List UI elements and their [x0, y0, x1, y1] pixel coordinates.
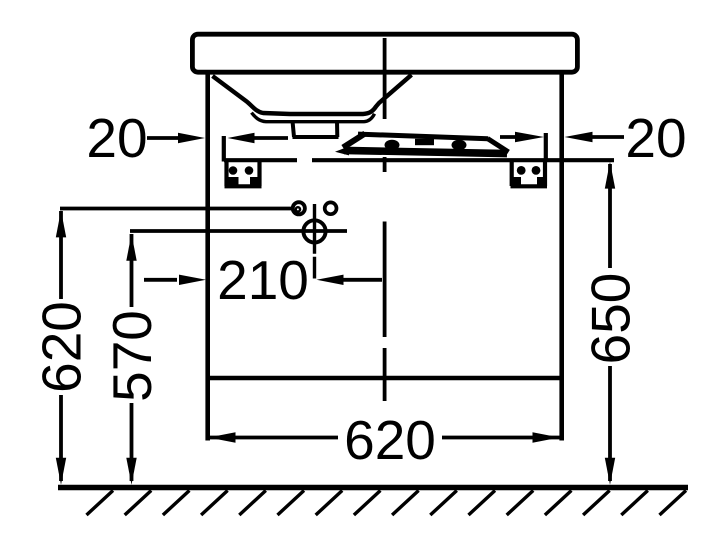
right bracket: [511, 161, 548, 186]
ground line: [58, 485, 688, 491]
svg-text:570: 570: [101, 310, 163, 402]
dim 20 left: [147, 136, 288, 140]
svg-text:210: 210: [217, 249, 309, 311]
hole circle C crosshair: [303, 220, 325, 242]
dim 570 vertical: [130, 234, 134, 481]
centerline: [383, 38, 387, 401]
ground hatching: [87, 491, 687, 516]
620 extension line: [60, 207, 292, 211]
dim 210: [144, 278, 382, 282]
svg-text:20: 20: [86, 107, 147, 169]
dim 650 vertical: [608, 164, 612, 481]
570 extension line: [130, 229, 347, 233]
left bracket: [225, 161, 262, 186]
drain box: [293, 121, 339, 137]
svg-text:620: 620: [344, 409, 436, 471]
hole axis vertical line: [313, 204, 316, 279]
bottom panel: [206, 376, 562, 380]
dim 620 left vertical: [59, 211, 63, 481]
svg-text:650: 650: [580, 273, 642, 365]
inner right wall line: [544, 133, 548, 162]
inner left wall line: [222, 136, 226, 162]
left side panel: [205, 74, 210, 441]
basin outer outline: [213, 75, 412, 114]
svg-text:20: 20: [625, 107, 686, 169]
svg-text:620: 620: [31, 301, 93, 393]
dim 20 right: [500, 135, 624, 139]
basin inner rim: [252, 113, 375, 122]
dim 620 bottom: [209, 436, 560, 440]
hole circle A with inner circle: [293, 202, 305, 214]
right side panel: [559, 74, 564, 441]
top rail line: [224, 158, 614, 162]
hole circle B: [325, 202, 337, 214]
drawer rail dark shape: [343, 134, 509, 154]
countertop: [192, 34, 577, 72]
